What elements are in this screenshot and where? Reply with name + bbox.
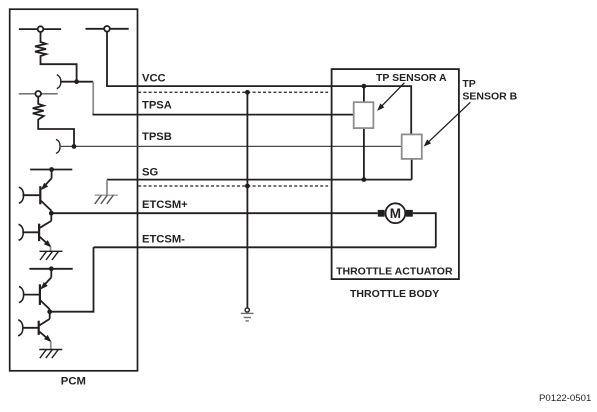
svg-text:PCM: PCM [61, 376, 86, 388]
terminal T3 [19, 91, 58, 97]
node dot D6 [47, 309, 52, 314]
svg-text:TPSB: TPSB [142, 131, 172, 143]
node dot D9 on VCC [362, 84, 367, 89]
motor left terminal [378, 210, 385, 217]
wire Q2 emitter to ground [50, 247, 52, 252]
transistor Q4 (NPN) [22, 312, 50, 341]
shield drain wire [246, 92, 248, 308]
connector arc A3 [19, 187, 24, 203]
TP sensor A box [354, 102, 374, 128]
wire VCC [107, 32, 411, 135]
Q3 emitter arrow [39, 282, 48, 291]
resistor R1 [35, 32, 77, 82]
TP sensor B box [402, 134, 422, 159]
wire TPSB [60, 145, 402, 147]
svg-text:SENSOR B: SENSOR B [462, 90, 517, 102]
connector arc A6 [18, 320, 23, 336]
wire SG to ground leg [106, 180, 108, 196]
wire TPSA jog down [92, 82, 94, 115]
connector arc A5 [19, 287, 24, 303]
connector arc A2 [56, 139, 60, 153]
node dot D2 [72, 144, 77, 149]
terminal T2 [86, 26, 129, 32]
PCM box [10, 9, 138, 371]
node dot D8 [245, 184, 250, 189]
svg-text:VCC: VCC [142, 73, 166, 85]
wire TP sensor A bottom [363, 128, 365, 180]
wire SG [107, 179, 412, 181]
earth ground G4 [241, 308, 254, 321]
resistor R2 [33, 97, 74, 147]
ground G1 (hatched) [95, 195, 118, 204]
wire TP sensor B bottom [411, 159, 413, 180]
terminal T1 [19, 26, 61, 32]
wire ETCSM- [94, 246, 436, 248]
wire TPSA [93, 114, 354, 116]
wire Q4 emitter to ground [50, 341, 52, 349]
wire motor to return [413, 213, 436, 247]
supply rail 1 [30, 169, 72, 171]
supply rail 2 [29, 268, 72, 270]
wire ETCSM+ [51, 212, 378, 214]
wire VCC to TP sensor A top [363, 86, 365, 102]
node dot D3 [49, 167, 54, 172]
svg-text:THROTTLE ACTUATOR: THROTTLE ACTUATOR [336, 265, 453, 277]
motor M circle [386, 203, 406, 223]
node dot D7 [245, 90, 250, 95]
svg-text:TP SENSOR A: TP SENSOR A [376, 72, 447, 84]
svg-text:ETCSM-: ETCSM- [142, 233, 185, 245]
svg-text:ETCSM+: ETCSM+ [142, 199, 188, 211]
shield dashed line 2 [138, 185, 328, 187]
leader arrow TP SENSOR A [380, 83, 404, 108]
THROTTLE ACTUATOR box [332, 69, 459, 279]
svg-text:P0122-0501: P0122-0501 [539, 393, 591, 404]
Q1 emitter arrow [39, 183, 48, 192]
transistor Q2 (NPN) [22, 213, 51, 246]
node dot D10 on SG [362, 177, 367, 182]
node dot D1 [74, 79, 79, 84]
transistor Q1 (PNP) [23, 170, 52, 214]
motor right terminal [406, 210, 413, 217]
connector arc A1 [57, 75, 61, 89]
svg-text:M: M [390, 206, 401, 221]
node dot D4 [49, 211, 54, 216]
connector arc A4 [19, 224, 24, 240]
wire arc A1 to node [61, 81, 93, 83]
svg-text:THROTTLE BODY: THROTTLE BODY [350, 288, 439, 300]
svg-text:TPSA: TPSA [142, 100, 172, 112]
wire ETCSM- inner [50, 247, 94, 311]
transistor Q3 (PNP) [23, 269, 51, 312]
node dot D5 [49, 266, 54, 271]
svg-text:SG: SG [142, 167, 158, 179]
ground G2 (hatched) [40, 251, 63, 260]
leader arrow TP SENSOR B [427, 102, 471, 143]
Q4 emitter arrow [44, 335, 53, 344]
svg-text:TP: TP [462, 78, 475, 90]
ground G3 (hatched) [39, 350, 62, 359]
Q2 emitter arrow [44, 240, 53, 249]
shield dashed line 1 [138, 91, 328, 93]
